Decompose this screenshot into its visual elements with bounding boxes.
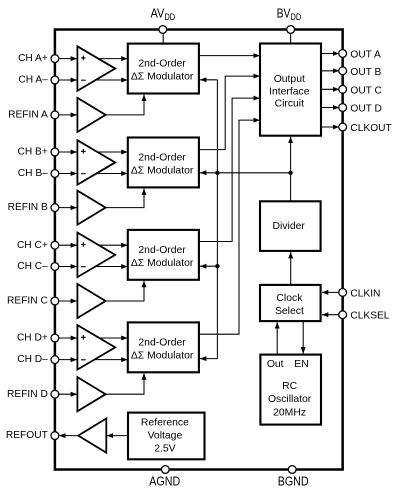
svg-text:OUT A: OUT A [350, 50, 381, 61]
svg-text:CH D–: CH D– [17, 354, 48, 365]
svg-text:CH B+: CH B+ [18, 147, 48, 158]
svg-text:Clock: Clock [276, 293, 303, 304]
svg-text:RC: RC [282, 381, 298, 392]
svg-text:DD: DD [164, 12, 175, 23]
svg-text:ΔΣ Modulator: ΔΣ Modulator [131, 72, 194, 83]
svg-text:BGND: BGND [278, 473, 309, 488]
svg-text:2.5V: 2.5V [154, 443, 175, 454]
svg-text:CLKSEL: CLKSEL [350, 311, 389, 322]
svg-text:2nd-Order: 2nd-Order [138, 59, 186, 70]
svg-text:CH D+: CH D+ [17, 333, 48, 344]
svg-text:REFIN C: REFIN C [7, 296, 48, 307]
svg-text:OUT B: OUT B [350, 67, 381, 78]
svg-text:CLKOUT: CLKOUT [350, 123, 391, 134]
svg-text:ΔΣ Modulator: ΔΣ Modulator [131, 166, 194, 177]
svg-text:REFOUT: REFOUT [6, 430, 48, 441]
svg-text:AV: AV [151, 5, 165, 20]
svg-text:CLKIN: CLKIN [350, 288, 380, 299]
svg-text:CH A–: CH A– [18, 75, 48, 86]
svg-text:REFIN A: REFIN A [8, 110, 48, 121]
svg-text:Voltage: Voltage [148, 430, 183, 441]
svg-text:EN: EN [294, 359, 308, 370]
svg-text:Out: Out [267, 359, 284, 370]
svg-text:OUT C: OUT C [350, 85, 382, 96]
svg-text:Interface: Interface [269, 87, 310, 98]
svg-text:ΔΣ Modulator: ΔΣ Modulator [131, 258, 194, 269]
svg-text:REFIN D: REFIN D [7, 389, 48, 400]
svg-text:Circuit: Circuit [275, 99, 305, 110]
svg-text:BV: BV [277, 5, 291, 20]
svg-text:Oscillator: Oscillator [268, 394, 312, 405]
svg-text:REFIN B: REFIN B [8, 202, 48, 213]
svg-text:CH A+: CH A+ [18, 53, 48, 64]
svg-text:Reference: Reference [141, 417, 189, 428]
svg-text:Output: Output [274, 74, 305, 85]
svg-text:AGND: AGND [149, 473, 180, 488]
svg-text:DD: DD [291, 12, 302, 23]
svg-text:CH C–: CH C– [17, 261, 48, 272]
svg-text:2nd-Order: 2nd-Order [138, 245, 186, 256]
svg-text:2nd-Order: 2nd-Order [138, 337, 186, 348]
svg-text:Select: Select [275, 306, 304, 317]
svg-text:20MHz: 20MHz [273, 408, 306, 419]
svg-text:2nd-Order: 2nd-Order [138, 152, 186, 163]
svg-text:CH B–: CH B– [18, 168, 48, 179]
svg-text:OUT D: OUT D [350, 104, 382, 115]
svg-text:CH C+: CH C+ [17, 240, 48, 251]
svg-text:Divider: Divider [273, 221, 306, 232]
svg-text:ΔΣ Modulator: ΔΣ Modulator [131, 350, 194, 361]
